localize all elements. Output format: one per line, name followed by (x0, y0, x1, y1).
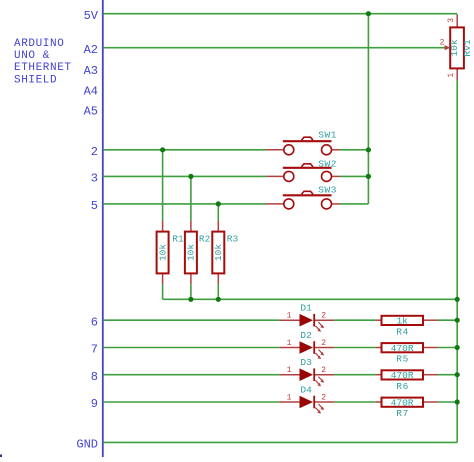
svg-text:R7: R7 (396, 408, 409, 419)
svg-text:A4: A4 (84, 85, 98, 99)
svg-text:2: 2 (321, 339, 326, 348)
svg-text:7: 7 (91, 343, 98, 357)
svg-text:SW3: SW3 (318, 185, 337, 196)
svg-text:10k: 10k (213, 244, 224, 261)
svg-text:2: 2 (91, 145, 98, 159)
svg-text:470R: 470R (391, 398, 414, 409)
svg-text:R3: R3 (227, 234, 239, 245)
svg-text:SW1: SW1 (318, 129, 337, 140)
svg-text:5V: 5V (84, 9, 99, 23)
svg-text:10k: 10k (157, 244, 168, 261)
svg-text:2: 2 (321, 393, 326, 402)
svg-text:UNO &: UNO & (14, 50, 50, 62)
svg-text:9: 9 (91, 397, 98, 411)
svg-text:RV1: RV1 (462, 39, 473, 56)
svg-text:D2: D2 (300, 330, 312, 341)
svg-text:R4: R4 (396, 326, 409, 337)
svg-text:ETHERNET: ETHERNET (14, 62, 72, 74)
svg-text:A3: A3 (84, 64, 98, 78)
svg-text:8: 8 (91, 370, 98, 384)
svg-text:D3: D3 (300, 357, 312, 368)
svg-text:1: 1 (447, 73, 456, 78)
svg-text:3: 3 (447, 18, 456, 23)
svg-text:ARDUINO: ARDUINO (14, 38, 64, 50)
svg-text:R2: R2 (199, 234, 211, 245)
svg-text:10k: 10k (186, 244, 197, 261)
svg-text:A5: A5 (84, 104, 98, 118)
svg-text:1: 1 (287, 339, 292, 348)
svg-text:470R: 470R (391, 343, 414, 354)
svg-text:470R: 470R (391, 370, 414, 381)
svg-text:1: 1 (287, 366, 292, 375)
svg-text:R6: R6 (396, 381, 409, 392)
svg-text:A2: A2 (84, 43, 98, 57)
svg-text:6: 6 (91, 315, 98, 329)
svg-text:D1: D1 (300, 303, 312, 314)
svg-text:1: 1 (287, 393, 292, 402)
svg-text:D4: D4 (300, 384, 312, 395)
svg-text:10k: 10k (449, 39, 460, 56)
svg-text:3: 3 (91, 172, 98, 186)
svg-text:2: 2 (321, 366, 326, 375)
svg-text:2: 2 (440, 39, 445, 48)
svg-text:1k: 1k (396, 316, 408, 327)
svg-text:R1: R1 (172, 234, 184, 245)
svg-text:GND: GND (76, 438, 98, 452)
svg-text:5: 5 (91, 199, 98, 213)
svg-text:SW2: SW2 (318, 159, 337, 170)
svg-text:2: 2 (321, 312, 326, 321)
svg-text:1: 1 (287, 312, 292, 321)
svg-text:SHIELD: SHIELD (14, 74, 57, 86)
svg-text:R5: R5 (396, 354, 409, 365)
